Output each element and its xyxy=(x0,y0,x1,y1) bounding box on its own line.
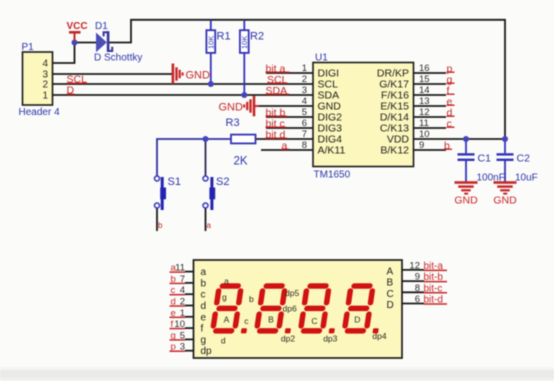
svg-text:bit-d: bit-d xyxy=(424,295,443,306)
svg-text:9: 9 xyxy=(419,140,424,151)
svg-text:10K: 10K xyxy=(207,36,216,49)
wire: U1 pin16 stub xyxy=(414,72,447,74)
junction node R2-SDA xyxy=(241,92,247,98)
svg-text:b: b xyxy=(158,221,163,230)
svg-text:A/K11: A/K11 xyxy=(318,145,346,157)
svg-text:bit-b: bit-b xyxy=(424,272,444,283)
wire: U1 pin14 stub xyxy=(414,94,447,96)
svg-text:GND: GND xyxy=(454,195,478,207)
resistor R2 10K xyxy=(240,30,264,53)
wire: C1 leads xyxy=(465,139,467,182)
svg-text:a: a xyxy=(224,276,229,286)
svg-text:3: 3 xyxy=(302,85,307,96)
svg-text:b: b xyxy=(201,278,207,289)
wire: R1 bottom to SCL xyxy=(210,53,212,84)
ground GND (C1) xyxy=(454,181,478,206)
svg-text:8: 8 xyxy=(302,140,307,151)
svg-text:5: 5 xyxy=(180,330,185,341)
svg-text:1: 1 xyxy=(42,91,48,102)
svg-text:C1: C1 xyxy=(478,153,492,165)
wire: net a to U1 pin8 xyxy=(261,149,313,151)
wire: S2 bottom stub xyxy=(205,209,207,232)
svg-text:12: 12 xyxy=(409,260,420,271)
svg-text:VCC: VCC xyxy=(67,21,88,32)
svg-text:a: a xyxy=(207,221,212,230)
svg-text:7: 7 xyxy=(180,274,185,285)
svg-text:14: 14 xyxy=(419,85,430,96)
pin b 7 xyxy=(185,282,194,284)
pin 8 bit-c xyxy=(402,291,424,293)
svg-text:2: 2 xyxy=(180,297,185,308)
wire: VCC node to diode anode xyxy=(75,42,97,44)
svg-text:f: f xyxy=(201,324,204,335)
svg-text:B: B xyxy=(387,278,394,289)
svg-text:a: a xyxy=(201,267,207,278)
power VCC xyxy=(67,21,88,41)
svg-text:5: 5 xyxy=(302,107,307,118)
junction node R1-SCL xyxy=(208,81,214,87)
svg-text:GND: GND xyxy=(493,195,517,207)
svg-text:C2: C2 xyxy=(517,153,531,165)
svg-text:1: 1 xyxy=(302,63,307,74)
ground GND (C2) xyxy=(493,181,517,206)
junction node C2-VDD xyxy=(502,136,508,142)
pin 12 bit-a xyxy=(402,269,424,271)
svg-text:2: 2 xyxy=(302,74,307,85)
svg-text:D: D xyxy=(67,85,75,97)
svg-text:13: 13 xyxy=(419,96,430,107)
svg-text:f: f xyxy=(171,319,174,330)
wire: bit c net to U1 pin6 xyxy=(266,127,313,129)
wire: junction to S2 xyxy=(205,139,207,176)
wire: C2 leads xyxy=(504,139,506,182)
svg-text:U1: U1 xyxy=(315,53,328,64)
digit 3 xyxy=(297,283,341,333)
display segment annotations xyxy=(221,276,387,346)
svg-text:dp2: dp2 xyxy=(281,334,295,344)
svg-text:S2: S2 xyxy=(216,176,229,188)
wire: S1 bottom stub xyxy=(156,209,158,232)
digit 1 xyxy=(210,283,254,333)
pin e 1 xyxy=(185,316,194,318)
svg-text:R3: R3 xyxy=(226,117,240,129)
capacitor C1 100nF xyxy=(458,153,505,184)
svg-text:1: 1 xyxy=(180,308,185,319)
svg-text:B/K12: B/K12 xyxy=(380,145,409,157)
svg-text:4: 4 xyxy=(42,59,48,70)
svg-text:d: d xyxy=(221,336,226,346)
svg-text:d: d xyxy=(201,301,207,312)
svg-text:12: 12 xyxy=(419,107,430,118)
wire: diode cathode to top rail xyxy=(109,20,505,139)
svg-text:3: 3 xyxy=(180,342,185,353)
svg-text:g: g xyxy=(201,335,207,346)
junction node VCC xyxy=(72,40,78,46)
digit 2 xyxy=(253,283,297,333)
svg-text:D Schottky: D Schottky xyxy=(94,53,142,64)
svg-text:GND: GND xyxy=(186,70,211,82)
svg-text:A: A xyxy=(224,315,230,325)
svg-text:e: e xyxy=(201,312,207,323)
svg-text:a: a xyxy=(282,140,288,152)
pin a 11 xyxy=(185,271,194,273)
svg-text:C: C xyxy=(387,289,394,300)
svg-text:10: 10 xyxy=(419,129,430,140)
pin 9 bit-b xyxy=(402,280,424,282)
pin dp 3 xyxy=(185,350,194,352)
svg-text:2K: 2K xyxy=(234,156,248,168)
svg-text:R2: R2 xyxy=(250,31,264,43)
junction node C1-VDD xyxy=(463,136,469,142)
svg-text:g: g xyxy=(171,330,176,341)
svg-text:D1: D1 xyxy=(95,21,108,32)
switch S1 xyxy=(155,176,181,230)
svg-text:8: 8 xyxy=(415,283,420,294)
svg-text:2: 2 xyxy=(42,80,48,91)
svg-text:S1: S1 xyxy=(168,176,181,188)
wire: SCL net header pin2 to U1 pin2 xyxy=(53,83,314,85)
svg-text:6: 6 xyxy=(415,294,420,305)
wire: U1 pin9 b net xyxy=(414,149,447,151)
wire: R2 top to rail xyxy=(243,20,245,30)
wire: header pin4 to VCC node xyxy=(53,43,75,64)
svg-text:4: 4 xyxy=(302,96,307,107)
svg-text:11: 11 xyxy=(175,263,185,274)
display DS1 7-segment 4-digit xyxy=(194,260,403,358)
svg-text:e: e xyxy=(171,308,176,319)
svg-text:TM1650: TM1650 xyxy=(314,170,351,181)
svg-text:16: 16 xyxy=(419,63,430,74)
svg-text:b: b xyxy=(444,140,450,152)
svg-text:C: C xyxy=(311,316,317,326)
svg-text:b: b xyxy=(171,274,176,285)
svg-text:10uF: 10uF xyxy=(515,173,538,184)
svg-text:p: p xyxy=(171,342,176,353)
ground GND right (U1 pin4) xyxy=(219,96,260,117)
svg-text:D: D xyxy=(354,315,360,325)
svg-text:b: b xyxy=(249,294,254,304)
svg-text:dp3: dp3 xyxy=(323,334,337,344)
svg-text:c: c xyxy=(201,290,206,301)
wire: R2 bottom to SDA xyxy=(243,53,245,95)
svg-text:dp4: dp4 xyxy=(372,331,386,341)
svg-text:P1: P1 xyxy=(22,42,35,53)
wire: header pin3 to GND symbol xyxy=(53,73,173,75)
display left pins and labels xyxy=(170,263,213,358)
wire: U1 pin12 stub xyxy=(414,116,447,118)
svg-text:d: d xyxy=(171,297,176,308)
svg-text:15: 15 xyxy=(419,74,430,85)
wire: R3 right to U1 pin7 xyxy=(256,138,314,140)
svg-text:Header 4: Header 4 xyxy=(19,107,61,118)
svg-text:R1: R1 xyxy=(217,31,231,43)
display right pins and labels xyxy=(387,260,448,311)
pin g 5 xyxy=(185,338,194,340)
svg-text:c: c xyxy=(447,118,452,130)
svg-text:6: 6 xyxy=(302,118,307,129)
wire: switches to R3 left xyxy=(157,139,231,176)
svg-text:A: A xyxy=(387,266,394,277)
svg-text:dp: dp xyxy=(201,346,213,357)
svg-text:10K: 10K xyxy=(240,36,249,49)
ground GND left (header pin3) xyxy=(172,64,210,85)
capacitor C2 10uF xyxy=(497,153,538,184)
pin c 4 xyxy=(185,293,194,295)
connector P1 Header 4 xyxy=(19,42,61,118)
wire: GND symbol to U1 pin4 xyxy=(254,105,313,107)
svg-text:7: 7 xyxy=(302,129,307,140)
svg-text:GND: GND xyxy=(219,102,244,114)
wire: VDD rail U1 pin10 to C1 C2 xyxy=(414,138,506,140)
svg-text:4: 4 xyxy=(180,285,185,296)
junction node S2-R3 xyxy=(203,136,209,142)
svg-text:dp5: dp5 xyxy=(285,288,299,298)
wire: U1 pin13 stub xyxy=(414,105,447,107)
wire: U1 pin11 stub xyxy=(414,127,447,129)
svg-text:10: 10 xyxy=(174,319,185,330)
svg-text:c: c xyxy=(244,316,249,326)
svg-text:g: g xyxy=(222,292,227,302)
svg-text:bit-a: bit-a xyxy=(424,261,444,272)
resistor R3 2K xyxy=(226,117,256,168)
svg-text:dp6: dp6 xyxy=(283,304,297,314)
svg-text:bit-c: bit-c xyxy=(424,283,443,294)
pin 6 bit-d xyxy=(402,303,424,305)
pin f 10 xyxy=(185,327,194,329)
net label underlines xyxy=(67,72,455,149)
svg-text:9: 9 xyxy=(415,272,420,283)
wire: R1 top to rail xyxy=(210,20,212,30)
diode D1 Schottky xyxy=(94,21,142,64)
wire: D/SDA net header pin1 to U1 pin3 xyxy=(53,94,314,96)
IC U1 TM1650 xyxy=(302,53,430,181)
svg-text:D: D xyxy=(387,300,394,311)
bottom shadow band xyxy=(0,366,554,381)
svg-text:B: B xyxy=(268,315,274,325)
switch S2 xyxy=(203,176,229,230)
resistor R1 10K xyxy=(206,30,230,53)
pin d 2 xyxy=(185,305,194,307)
wire: bit b net to U1 pin5 xyxy=(266,116,313,118)
digit 4 xyxy=(341,283,385,333)
svg-text:c: c xyxy=(171,285,176,296)
svg-text:11: 11 xyxy=(419,118,429,129)
svg-text:SDA: SDA xyxy=(266,85,288,97)
wire: bit a net to U1 pin1 xyxy=(266,72,313,74)
wire: U1 pin15 stub xyxy=(414,83,447,85)
